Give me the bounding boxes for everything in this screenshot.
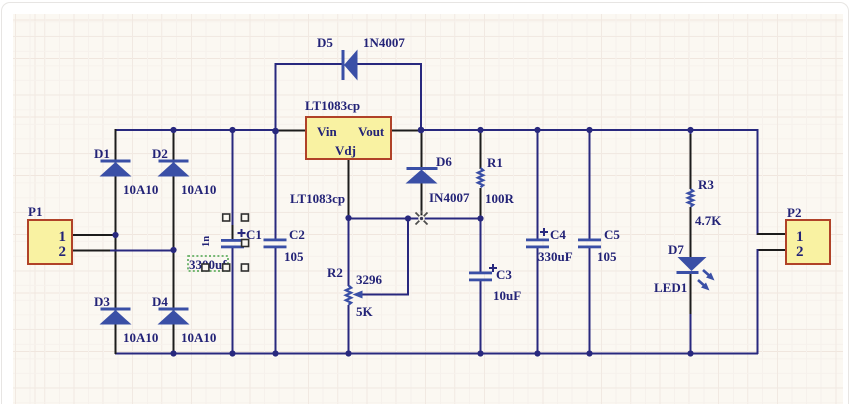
wire: C1 column lower xyxy=(232,247,234,354)
wire: D5 branch top right xyxy=(357,63,422,65)
diode D2 xyxy=(152,146,216,197)
svg-text:100R: 100R xyxy=(485,191,515,206)
svg-text:LT1083cp: LT1083cp xyxy=(305,98,360,113)
svg-text:C2: C2 xyxy=(289,227,305,242)
wire: C3 column upper xyxy=(480,218,482,272)
wire: P2 pin 1 stub xyxy=(757,233,786,235)
svg-text:R1: R1 xyxy=(487,155,503,170)
junction bottom bus / D4 column xyxy=(170,350,176,356)
svg-text:5K: 5K xyxy=(356,304,374,319)
svg-text:D4: D4 xyxy=(152,294,168,309)
junction adjust bus / wiper xyxy=(405,215,411,221)
wire: P1 pin 2 stub xyxy=(72,250,174,252)
wire: R3 top segment xyxy=(690,129,692,189)
svg-text:D2: D2 xyxy=(152,146,168,161)
wire: P2 top vertical xyxy=(757,129,759,235)
wire: R2 wiper vertical xyxy=(407,218,409,296)
op-amp U1 regulator LT1083cp body xyxy=(305,98,391,159)
connector P2 xyxy=(786,205,830,264)
selection handles around C1 xyxy=(202,214,249,271)
junction top bus / D5 branch / C2 column xyxy=(272,128,279,135)
junction adjust bus / Vdj xyxy=(345,215,351,221)
junction Vout / D5 / D6 node xyxy=(418,127,425,134)
svg-text:R3: R3 xyxy=(698,177,714,192)
svg-text:C4: C4 xyxy=(550,227,566,242)
svg-text:105: 105 xyxy=(597,249,617,264)
wire: C2 column upper xyxy=(275,130,277,239)
wire: P2 bottom vertical xyxy=(757,249,759,354)
wire: bottom bus xyxy=(115,353,758,355)
wire: R2 top segment xyxy=(348,218,350,286)
junction P1 pin1 / bridge column xyxy=(112,232,118,238)
wire: R3 to LED segment xyxy=(690,207,692,257)
junction top bus / R3 column xyxy=(687,127,693,133)
label LT1083cp (component comment) xyxy=(290,191,345,206)
svg-text:D3: D3 xyxy=(94,294,110,309)
wire: R2 wiper horizontal xyxy=(360,294,409,296)
wire: D6 bottom pin xyxy=(421,183,423,219)
wire: C2 column lower xyxy=(275,247,277,354)
wire: R1 top pin xyxy=(480,129,482,169)
capacitor C4 xyxy=(526,227,573,264)
junction bottom bus / C4 column xyxy=(534,350,540,356)
svg-text:LED1: LED1 xyxy=(654,280,687,295)
junction top bus / C1 column xyxy=(229,127,235,133)
wire: Vdj pin vertical xyxy=(348,159,350,218)
svg-text:330uF: 330uF xyxy=(538,249,573,264)
svg-text:1N4007: 1N4007 xyxy=(363,35,405,50)
wire: C5 column lower xyxy=(589,247,591,354)
junction top bus / D2 column xyxy=(170,127,176,133)
junction bottom bus / C5 column xyxy=(586,350,592,356)
wire: C3 column lower xyxy=(480,280,482,354)
junction bottom bus / C1 column xyxy=(229,350,235,356)
diode D1 xyxy=(94,146,158,197)
diode D3 xyxy=(94,294,158,345)
capacitor C1 xyxy=(201,227,262,248)
wire: D1-D3 column xyxy=(115,129,117,354)
svg-text:C3: C3 xyxy=(496,267,512,282)
diode D4 xyxy=(152,294,216,345)
svg-text:D1: D1 xyxy=(94,146,110,161)
svg-text:10A10: 10A10 xyxy=(123,330,158,345)
capacitor C3 xyxy=(469,264,521,303)
diode D6 xyxy=(406,154,470,205)
wire: C4 column upper xyxy=(537,129,539,239)
junction bottom bus / C2 column xyxy=(272,350,278,356)
wire: R2 bottom segment xyxy=(348,305,350,354)
wire: D6 top pin xyxy=(421,130,423,168)
junction bottom bus / LED column xyxy=(687,350,693,356)
svg-text:D5: D5 xyxy=(317,35,333,50)
svg-text:2: 2 xyxy=(59,244,67,260)
junction adjust bus / R1 column xyxy=(477,215,483,221)
wire: top bus left segment xyxy=(115,129,277,131)
junction P1 pin2 / bridge column xyxy=(170,247,176,253)
wire: C4 column lower xyxy=(537,247,539,354)
wire: Vin pin stub xyxy=(277,130,306,132)
wire: LED bottom segment xyxy=(690,272,692,354)
svg-text:4.7K: 4.7K xyxy=(695,213,722,228)
svg-text:R2: R2 xyxy=(327,265,343,280)
svg-text:10A10: 10A10 xyxy=(181,182,216,197)
junction top bus / C5 column xyxy=(586,127,592,133)
svg-text:LT1083cp: LT1083cp xyxy=(290,191,345,206)
junction top bus / C4 column xyxy=(534,127,540,133)
wire: R1 bottom pin xyxy=(480,188,482,219)
label 3300uf with selection xyxy=(188,256,228,272)
cursor cross marker at adjust node xyxy=(416,211,428,225)
junction bottom bus / R2 column xyxy=(345,350,351,356)
svg-text:P1: P1 xyxy=(28,204,42,219)
wire: D5 branch left vertical xyxy=(275,63,277,131)
resistor R1 xyxy=(478,155,515,206)
capacitor C2 xyxy=(264,227,305,264)
svg-text:10A10: 10A10 xyxy=(181,330,216,345)
wire: top bus right segment xyxy=(420,129,758,131)
svg-text:10uF: 10uF xyxy=(493,288,521,303)
svg-text:2: 2 xyxy=(796,244,804,260)
resistor R2 potentiometer xyxy=(327,265,383,319)
LED D7 xyxy=(654,242,715,295)
svg-text:105: 105 xyxy=(284,249,304,264)
wire: C1 column upper xyxy=(232,129,234,239)
connector P1 xyxy=(28,204,72,264)
svg-text:Vout: Vout xyxy=(358,124,385,139)
capacitor C5 xyxy=(578,227,620,264)
svg-text:1: 1 xyxy=(59,229,67,245)
svg-text:3296: 3296 xyxy=(356,272,383,287)
svg-text:10A10: 10A10 xyxy=(123,182,158,197)
wire: D5 branch right vertical xyxy=(420,63,422,130)
svg-text:Vin: Vin xyxy=(317,124,338,139)
svg-text:D6: D6 xyxy=(436,154,452,169)
wire: P2 pin 2 stub xyxy=(757,249,786,251)
junction bottom bus / C3 column xyxy=(477,350,483,356)
wire: adjust bus horizontal xyxy=(348,218,482,220)
svg-text:D7: D7 xyxy=(668,242,684,257)
svg-text:Vdj: Vdj xyxy=(335,143,356,158)
wire: D5 branch top left xyxy=(275,63,343,65)
diode D5 xyxy=(317,35,405,81)
svg-text:1: 1 xyxy=(796,229,804,245)
svg-text:1n: 1n xyxy=(201,236,212,247)
svg-text:IN4007: IN4007 xyxy=(429,190,470,205)
junction top bus / R1 column xyxy=(477,127,483,133)
svg-text:C5: C5 xyxy=(604,227,620,242)
svg-text:P2: P2 xyxy=(787,205,801,220)
wire: Vout pin stub xyxy=(391,130,421,132)
resistor R3 xyxy=(688,177,722,228)
wire: P1 pin 1 stub xyxy=(72,234,115,236)
wire: C5 column upper xyxy=(589,129,591,239)
wire: D2-D4 column xyxy=(173,129,175,354)
